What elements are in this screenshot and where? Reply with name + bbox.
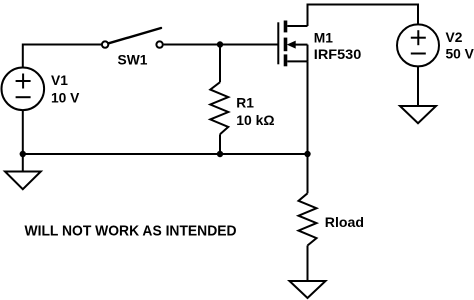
wire R1 to bottom rail: [219, 134, 221, 154]
wire M1 source to bottom junction: [307, 61, 309, 154]
node bottom-right junction dot: [304, 151, 310, 157]
node gate junction dot: [217, 41, 223, 47]
label Rload: [325, 215, 364, 230]
wire switch to MOSFET gate: [164, 44, 278, 46]
wire V1 bottom to ground: [22, 110, 24, 172]
switch SW1: [102, 28, 163, 48]
wire V1 top to switch: [23, 45, 102, 69]
svg-text:10 V: 10 V: [51, 91, 80, 106]
node bottom-left junction dot: [20, 151, 26, 157]
svg-text:IRF530: IRF530: [314, 47, 362, 62]
label R1 10 kOhm: [236, 95, 274, 128]
svg-text:V1: V1: [51, 73, 68, 88]
label SW1: [118, 52, 148, 67]
svg-text:Rload: Rload: [325, 215, 364, 230]
node R1 bottom junction dot: [217, 151, 223, 157]
wire junction to R1: [219, 45, 221, 83]
svg-text:50 V: 50 V: [446, 46, 474, 61]
voltage source V2: [397, 24, 439, 66]
ground below Rload: [290, 281, 326, 298]
label V2 50 V: [446, 30, 474, 62]
label V1 10 V: [51, 73, 80, 106]
label M1 IRF530: [314, 30, 362, 61]
svg-text:SW1: SW1: [118, 52, 148, 67]
annotation WILL NOT WORK AS INTENDED: [25, 223, 237, 240]
wire bottom rail: [23, 153, 308, 155]
resistor Rload: [299, 193, 317, 245]
voltage source V1: [2, 68, 45, 111]
resistor R1: [210, 82, 228, 134]
svg-text:WILL NOT WORK AS INTENDED: WILL NOT WORK AS INTENDED: [25, 223, 237, 240]
wire M1 drain to top rail: [307, 4, 309, 27]
svg-text:R1: R1: [236, 95, 254, 110]
svg-text:V2: V2: [446, 30, 463, 45]
ground below V2: [400, 106, 436, 123]
wire top rail to V2: [307, 5, 419, 25]
wire V2 to ground: [417, 66, 419, 106]
svg-text:10 kΩ: 10 kΩ: [236, 113, 274, 128]
transistor M1 (NMOS): [278, 21, 307, 67]
wire Rload to ground: [307, 246, 309, 282]
svg-text:M1: M1: [314, 30, 333, 45]
ground below V1: [5, 172, 41, 190]
wire junction to Rload: [307, 154, 309, 193]
